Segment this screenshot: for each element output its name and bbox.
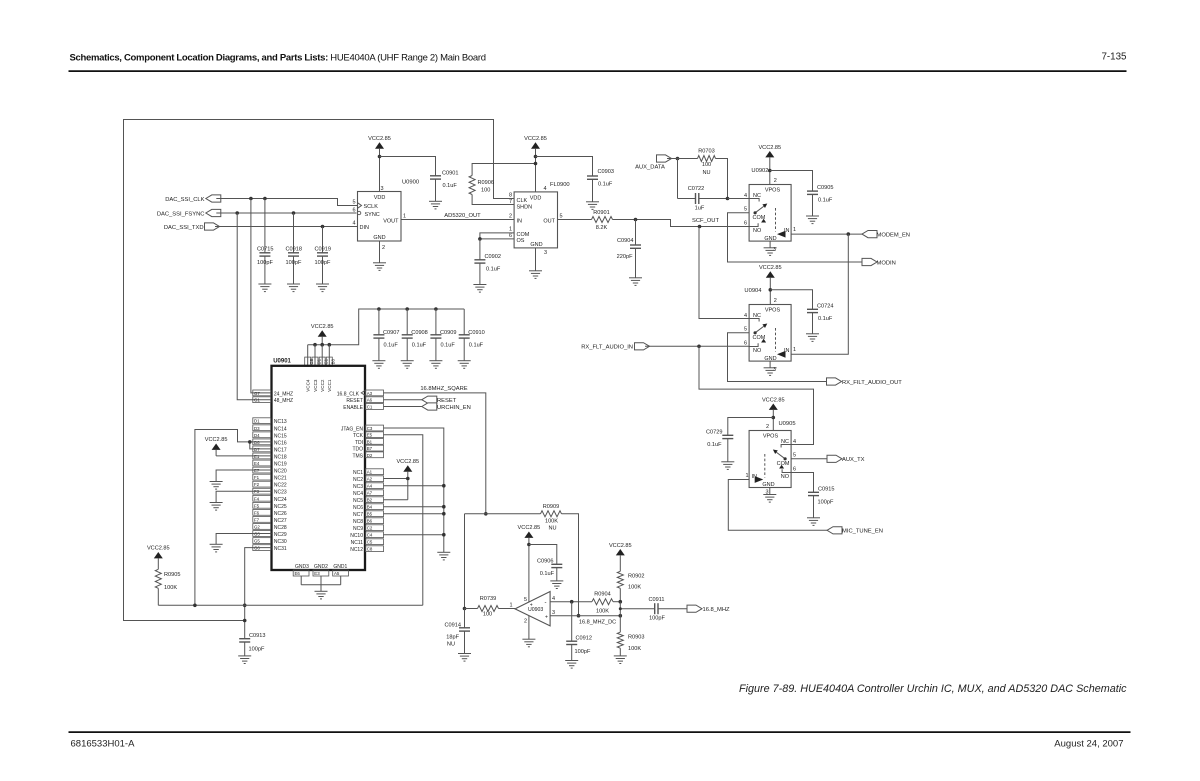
wire NC20 to ground — [216, 470, 271, 482]
svg-text:TCK: TCK — [353, 433, 364, 439]
pin E1 NC18 — [253, 453, 287, 460]
junction C0911 tap — [619, 607, 622, 610]
svg-text:E5: E5 — [367, 433, 373, 438]
svg-text:AUX_DATA: AUX_DATA — [635, 165, 665, 171]
svg-text:C8: C8 — [367, 547, 373, 552]
svg-text:VCC1: VCC1 — [327, 379, 332, 392]
svg-text:C5: C5 — [367, 540, 373, 545]
port MODEM_EN — [862, 231, 910, 239]
pin C3 JTAG_EN — [341, 425, 384, 432]
port RESET — [384, 396, 457, 404]
capacitor C0915 — [808, 487, 834, 518]
svg-text:U0901: U0901 — [273, 358, 291, 364]
svg-text:VCC4: VCC4 — [306, 379, 311, 392]
svg-text:NC26: NC26 — [274, 511, 287, 517]
svg-text:100: 100 — [483, 612, 492, 618]
svg-text:16.8MHZ_SQARE: 16.8MHZ_SQARE — [420, 386, 467, 392]
ground below C0913 — [238, 656, 251, 664]
svg-text:0.1uF: 0.1uF — [598, 182, 613, 188]
svg-text:NC31: NC31 — [274, 546, 287, 552]
junction SCF_OUT to RX chain — [698, 225, 702, 229]
capacitor C0722 — [678, 159, 728, 212]
svg-text:NC18: NC18 — [274, 454, 287, 460]
junction NC6 — [442, 505, 446, 509]
svg-text:1: 1 — [745, 473, 748, 479]
net label 16.8_MHZ_DC — [579, 620, 616, 626]
junction NC31 loop — [243, 619, 247, 623]
svg-text:R0903: R0903 — [628, 635, 644, 641]
svg-text:R0904: R0904 — [594, 592, 610, 598]
ground below C0903 — [586, 202, 599, 210]
svg-text:NU: NU — [548, 525, 556, 531]
footer rule — [69, 731, 1131, 733]
svg-text:F1: F1 — [254, 475, 260, 480]
svg-text:ENABLE: ENABLE — [343, 405, 363, 411]
port AUX_TX — [827, 455, 865, 463]
IC label U0905 — [779, 421, 796, 427]
junction NC16 NC17 — [248, 440, 252, 444]
wire U0905 GND pin — [763, 488, 776, 503]
svg-text:C0906: C0906 — [537, 559, 553, 565]
power VCC2.85 for U0905 — [762, 397, 785, 430]
svg-text:U0905: U0905 — [779, 421, 796, 427]
wire to R0739 — [465, 608, 478, 610]
svg-text:NC27: NC27 — [274, 518, 287, 524]
ground below C0901 — [429, 201, 442, 209]
svg-text:2: 2 — [509, 214, 512, 220]
svg-text:C0729: C0729 — [706, 430, 722, 436]
pin G6 NC31 — [253, 545, 287, 552]
svg-text:TDO: TDO — [352, 447, 363, 453]
svg-text:FL0900: FL0900 — [550, 182, 570, 188]
svg-text:NC19: NC19 — [274, 462, 287, 468]
IC label U0904 — [744, 288, 762, 294]
svg-text:B2: B2 — [367, 498, 373, 503]
svg-text:220pF: 220pF — [617, 254, 633, 260]
junction rail C0908 — [405, 307, 409, 311]
svg-text:NC20: NC20 — [274, 469, 287, 475]
capacitor C0904 — [617, 220, 641, 278]
wire divider to C0911 — [620, 608, 654, 610]
svg-text:R0703: R0703 — [698, 149, 714, 155]
ground below C0905 — [806, 216, 819, 224]
wire bottom rail — [158, 604, 423, 606]
capacitor C0901 — [430, 171, 458, 202]
wire VCC to C0901 — [380, 157, 436, 176]
pin D1 NC13 — [253, 418, 287, 425]
junction VCC3 stem — [313, 343, 317, 347]
svg-text:6: 6 — [744, 221, 747, 227]
capacitor C0729 — [706, 430, 733, 462]
svg-text:F7: F7 — [254, 517, 260, 522]
pin G5 NC30 — [253, 538, 287, 545]
svg-text:4: 4 — [793, 439, 796, 445]
wire VCC to C0903 — [536, 157, 593, 177]
svg-text:NC6: NC6 — [353, 505, 363, 511]
wire RX input down to U0905 NC — [699, 346, 814, 444]
junction NC7 — [442, 512, 446, 516]
svg-text:SCF_OUT: SCF_OUT — [692, 218, 720, 224]
wire pin 4 minus line — [550, 601, 592, 603]
junction NC31 rail — [243, 604, 247, 608]
svg-text:OUT: OUT — [543, 219, 555, 225]
svg-text:RESET: RESET — [346, 398, 363, 404]
power VCC2.85 for U0904 — [759, 265, 782, 305]
svg-text:MODIN: MODIN — [877, 260, 896, 266]
junction rail C0909 — [434, 307, 438, 311]
junction on CLK for C0715 — [263, 197, 267, 201]
pin designator C1 top — [319, 357, 328, 366]
FL0900 pin labels — [509, 186, 563, 256]
svg-text:C3: C3 — [367, 426, 373, 431]
svg-text:100: 100 — [481, 188, 490, 194]
wire pin 3 plus line — [550, 615, 620, 617]
svg-text:7-135: 7-135 — [1101, 52, 1127, 63]
svg-text:C0914: C0914 — [445, 623, 461, 629]
power VCC2.85 for FL0900 — [524, 136, 547, 192]
junction U0903 VCC / C0906 — [527, 543, 531, 547]
capacitor C0903 — [587, 169, 614, 202]
wire to U0902 NC pin — [728, 198, 750, 200]
svg-text:A3: A3 — [367, 391, 373, 396]
port DAC_SSI_FSYNC — [157, 209, 221, 217]
pin D6 NC16 — [253, 439, 287, 446]
wire MODEM_EN net down to U0904 IN — [791, 234, 848, 354]
svg-text:0.1uF: 0.1uF — [469, 342, 484, 348]
svg-text:U0900: U0900 — [402, 180, 419, 186]
wire U0905 NO to C0915 — [791, 473, 813, 493]
svg-text:0.1uF: 0.1uF — [818, 316, 833, 322]
wire VCC to C0729 — [728, 418, 774, 436]
svg-text:+: + — [530, 603, 533, 609]
wire U0900 GND pin — [373, 241, 386, 270]
pin D7 NC17 — [253, 446, 287, 453]
svg-text:2: 2 — [774, 298, 777, 304]
svg-text:C0902: C0902 — [485, 254, 501, 260]
header rule — [69, 70, 1127, 72]
svg-text:1: 1 — [403, 214, 406, 220]
pin name VCC4 rotated — [306, 379, 311, 392]
footer date — [1054, 739, 1123, 750]
wire NC10 to chain — [384, 534, 444, 536]
capacitor C0918 — [286, 213, 302, 284]
svg-text:0.1uF: 0.1uF — [707, 442, 722, 448]
svg-text:0.1uF: 0.1uF — [540, 571, 555, 577]
svg-text:1uF: 1uF — [695, 205, 705, 211]
svg-text:B1: B1 — [367, 439, 373, 444]
svg-text:E7: E7 — [254, 468, 260, 473]
svg-text:D4: D4 — [254, 433, 260, 438]
svg-text:NC28: NC28 — [274, 525, 287, 531]
pin A1 NC1 — [353, 469, 384, 476]
wire JTAG_EN to ground chain — [384, 428, 444, 552]
port RX_FLT_AUDIO_IN — [581, 343, 649, 351]
svg-text:GND1: GND1 — [333, 564, 347, 570]
ground below C0918 — [287, 284, 300, 292]
svg-text:2: 2 — [766, 424, 769, 430]
svg-text:F4: F4 — [254, 496, 260, 501]
svg-text:VCC2.85: VCC2.85 — [147, 546, 170, 552]
resistor R0901 — [592, 210, 613, 231]
ground below C0909 — [429, 361, 442, 369]
svg-text:C2: C2 — [367, 526, 373, 531]
svg-text:G7: G7 — [254, 391, 260, 396]
wire COM OS tie — [480, 233, 514, 239]
wire NC31 to C0913 — [245, 548, 272, 639]
svg-text:R0901: R0901 — [593, 210, 609, 216]
svg-text:VCC2.85: VCC2.85 — [609, 543, 632, 549]
power VCC2.85 for NC2/NC5 — [396, 459, 419, 479]
pin A6 RESET — [346, 397, 383, 404]
svg-text:16.8_MHZ: 16.8_MHZ — [703, 607, 731, 613]
svg-text:TMS: TMS — [352, 453, 363, 459]
ground below C0908 — [401, 361, 414, 369]
svg-text:100K: 100K — [545, 519, 558, 525]
pin G2 NC28 — [253, 524, 287, 531]
U0902 pin texts — [744, 178, 796, 253]
pin D3 NC14 — [253, 425, 287, 432]
wire NC6 to chain — [384, 506, 444, 508]
svg-text:NC3: NC3 — [353, 484, 363, 490]
svg-text:OS: OS — [517, 238, 525, 244]
svg-text:B4: B4 — [367, 505, 373, 510]
svg-text:NC16: NC16 — [274, 440, 287, 446]
wire NC29 to ground — [216, 534, 271, 545]
wire U0905 IN to MIC_TUNE_EN — [728, 480, 827, 531]
svg-text:DAC_SSI_TXD: DAC_SSI_TXD — [164, 225, 204, 231]
ground below C0902 — [473, 285, 486, 293]
IC label U0902 — [751, 168, 768, 174]
junction FL0900 VDD / C0903 — [534, 155, 538, 159]
wire divider middle — [619, 602, 621, 633]
pin B7 TDO — [352, 445, 383, 452]
wire DAC_SSI_CLK to U0900 SCLK — [216, 199, 357, 206]
svg-text:C0910: C0910 — [468, 330, 484, 336]
svg-text:Schematics, Component Location: Schematics, Component Location Diagrams,… — [70, 53, 486, 64]
junction VCC1 stem — [328, 343, 332, 347]
svg-text:B5: B5 — [367, 512, 373, 517]
svg-text:A1: A1 — [367, 470, 373, 475]
svg-text:DAC_SSI_FSYNC: DAC_SSI_FSYNC — [157, 211, 205, 217]
wire FL0900 GND pin — [529, 248, 542, 279]
svg-text:NC9: NC9 — [353, 526, 363, 532]
resistor R0703 — [698, 149, 716, 177]
svg-text:NO: NO — [753, 348, 762, 354]
pin C5 NC11 — [351, 539, 384, 546]
capacitor C0907 — [373, 309, 399, 361]
svg-text:C0724: C0724 — [817, 303, 833, 309]
svg-text:C0715: C0715 — [257, 247, 273, 253]
svg-text:NC17: NC17 — [274, 447, 287, 453]
resistor R0902 — [617, 571, 644, 601]
svg-text:E3: E3 — [314, 571, 320, 576]
svg-text:16.8_MHZ_DC: 16.8_MHZ_DC — [579, 620, 616, 626]
svg-text:VDD: VDD — [530, 195, 542, 201]
wire NC7 to chain — [384, 513, 444, 515]
svg-text:100: 100 — [702, 162, 711, 168]
svg-text:SCLK: SCLK — [364, 204, 379, 210]
capacitor C0715 — [257, 199, 273, 285]
svg-text:100pF: 100pF — [286, 260, 302, 266]
capacitor C0913 — [239, 633, 265, 656]
capacitor C0912 — [566, 602, 592, 661]
svg-text:3: 3 — [544, 250, 547, 256]
U0904 switch symbol — [749, 319, 785, 358]
pin G1 48_MHZ — [253, 397, 293, 404]
pin name VCC1 rotated — [327, 379, 332, 392]
IC U0902 body — [749, 185, 791, 242]
svg-text:VPOS: VPOS — [763, 433, 779, 439]
svg-text:4: 4 — [352, 220, 355, 226]
svg-text:GND2: GND2 — [314, 564, 328, 570]
svg-text:6: 6 — [793, 467, 796, 473]
capacitor C0911 — [648, 597, 687, 621]
svg-text:+: + — [545, 614, 548, 620]
op-amp U0903 — [509, 592, 555, 626]
pin D4 NC15 — [253, 432, 287, 439]
junction U0902 VPOS / C0905 — [768, 169, 772, 173]
wire NC2 NC5 tie — [384, 479, 408, 500]
ground below NC chain — [437, 552, 450, 560]
svg-text:AUX_TX: AUX_TX — [842, 457, 865, 463]
svg-text:NO: NO — [781, 474, 790, 480]
svg-text:1: 1 — [509, 227, 512, 233]
svg-text:E1: E1 — [254, 454, 260, 459]
svg-text:2: 2 — [774, 178, 777, 184]
svg-text:3: 3 — [381, 186, 384, 192]
svg-text:4: 4 — [744, 313, 747, 319]
svg-text:F5: F5 — [254, 503, 260, 508]
resistor R0905 — [147, 546, 181, 606]
svg-text:VCC2.85: VCC2.85 — [205, 437, 228, 443]
wire R0739 to op-amp pin 1 — [499, 608, 516, 610]
svg-text:NC: NC — [781, 439, 789, 445]
capacitor C0909 — [430, 309, 456, 361]
svg-text:NC14: NC14 — [274, 426, 287, 432]
ground at NC20 — [210, 482, 223, 490]
ground below C0729 — [721, 462, 734, 470]
svg-text:A6: A6 — [367, 398, 373, 403]
pin B1 TDI — [355, 439, 384, 446]
ground below C0904 — [629, 278, 642, 286]
pin F7 NC27 — [253, 517, 287, 524]
U0905 switch symbol mirrored — [755, 445, 791, 483]
pin designator G5 top — [305, 357, 314, 366]
wire feedback node — [465, 513, 541, 515]
pin C1 ENABLE — [343, 404, 383, 411]
resistor R0739 — [478, 596, 499, 618]
U0902 switch symbol — [749, 199, 785, 238]
svg-text:D1: D1 — [254, 419, 260, 424]
junction 16.8MHZ_SQARE node — [484, 512, 488, 516]
junction R0739 input — [463, 607, 467, 611]
svg-text:NC29: NC29 — [274, 532, 287, 538]
junction C0722 / R0703 — [726, 197, 730, 201]
svg-text:G2: G2 — [254, 524, 260, 529]
pin A4 NC3 — [353, 483, 384, 490]
svg-text:24_MHZ: 24_MHZ — [274, 391, 293, 397]
junction C0904 — [634, 218, 638, 222]
svg-text:48_MHZ: 48_MHZ — [274, 398, 293, 404]
wire TCK to bottom rail — [384, 435, 423, 606]
junction divider minus — [619, 600, 623, 604]
svg-text:C0904: C0904 — [617, 238, 633, 244]
wire VCC pin stem 1 — [307, 345, 309, 366]
svg-text:GND: GND — [373, 235, 385, 241]
pin E4 NC19 — [253, 460, 287, 467]
pin B6 NC8 — [353, 518, 384, 525]
svg-text:C0903: C0903 — [598, 169, 614, 175]
svg-text:NC10: NC10 — [350, 533, 363, 539]
svg-text:4: 4 — [552, 596, 555, 602]
svg-text:C0907: C0907 — [383, 330, 399, 336]
svg-text:C4: C4 — [367, 533, 373, 538]
pin designator B3 top — [326, 357, 335, 366]
pin B2 NC5 — [353, 497, 384, 504]
pin A2 NC2 — [353, 476, 384, 483]
wire AUX_DATA to R0703 — [667, 158, 698, 160]
svg-text:NC25: NC25 — [274, 504, 287, 510]
wire FL0900 OUT to R0901 — [558, 219, 592, 221]
svg-text:NC5: NC5 — [353, 498, 363, 504]
svg-text:1: 1 — [793, 347, 796, 353]
svg-text:U0904: U0904 — [744, 288, 762, 294]
svg-text:8.2K: 8.2K — [596, 225, 608, 231]
port MIC_TUNE_EN — [827, 527, 883, 535]
svg-text:RX_FLT_AUDIO_IN: RX_FLT_AUDIO_IN — [581, 345, 633, 351]
junction rail C0907 — [377, 307, 381, 311]
svg-text:VOUT: VOUT — [383, 218, 399, 224]
svg-text:0.1uF: 0.1uF — [384, 342, 399, 348]
svg-text:GND: GND — [530, 242, 542, 248]
pin designator D1 top — [312, 357, 321, 366]
capacitor C0724 — [807, 303, 833, 334]
svg-text:DAC_SSI_CLK: DAC_SSI_CLK — [165, 197, 204, 203]
svg-text:VCC2.85: VCC2.85 — [396, 459, 419, 465]
capacitor C0919 — [315, 227, 331, 285]
wire FSYNC to U0901 48_MHZ — [237, 213, 271, 400]
svg-text:100K: 100K — [596, 609, 609, 615]
svg-text:DIN: DIN — [360, 225, 370, 231]
wire NC16 NC17 to loop rail — [195, 430, 272, 606]
junction NC2 VCC — [406, 477, 410, 481]
wire big loop from FL0900 CLK around left side — [124, 120, 515, 621]
ground below C0912 — [565, 661, 578, 669]
U0904 pin texts — [744, 298, 796, 373]
svg-text:U0902: U0902 — [751, 168, 768, 174]
pin A7 NC4 — [353, 490, 384, 497]
page number — [1101, 52, 1127, 63]
svg-text:NC13: NC13 — [274, 419, 287, 425]
wire NC3 to chain — [384, 485, 444, 487]
svg-text:C0913: C0913 — [249, 633, 265, 639]
svg-text:100pF: 100pF — [818, 500, 834, 506]
junction U0900 VDD / C0901 — [378, 155, 382, 159]
net label 16.8MHZ_SQARE — [420, 386, 467, 392]
svg-text:VCC2.85: VCC2.85 — [311, 324, 334, 330]
U0901 GND pins — [293, 564, 348, 576]
wire R0904 to divider — [613, 601, 620, 603]
svg-text:-: - — [545, 600, 547, 606]
svg-text:2: 2 — [382, 245, 385, 251]
wire VCC to C0905 — [770, 171, 813, 192]
svg-text:R0906: R0906 — [478, 180, 494, 186]
svg-text:C1: C1 — [367, 405, 373, 410]
svg-text:4: 4 — [544, 186, 547, 192]
svg-text:C0919: C0919 — [315, 247, 331, 253]
svg-text:NU: NU — [702, 170, 710, 176]
wire U0904 NC up to SCF_OUT — [699, 227, 749, 319]
